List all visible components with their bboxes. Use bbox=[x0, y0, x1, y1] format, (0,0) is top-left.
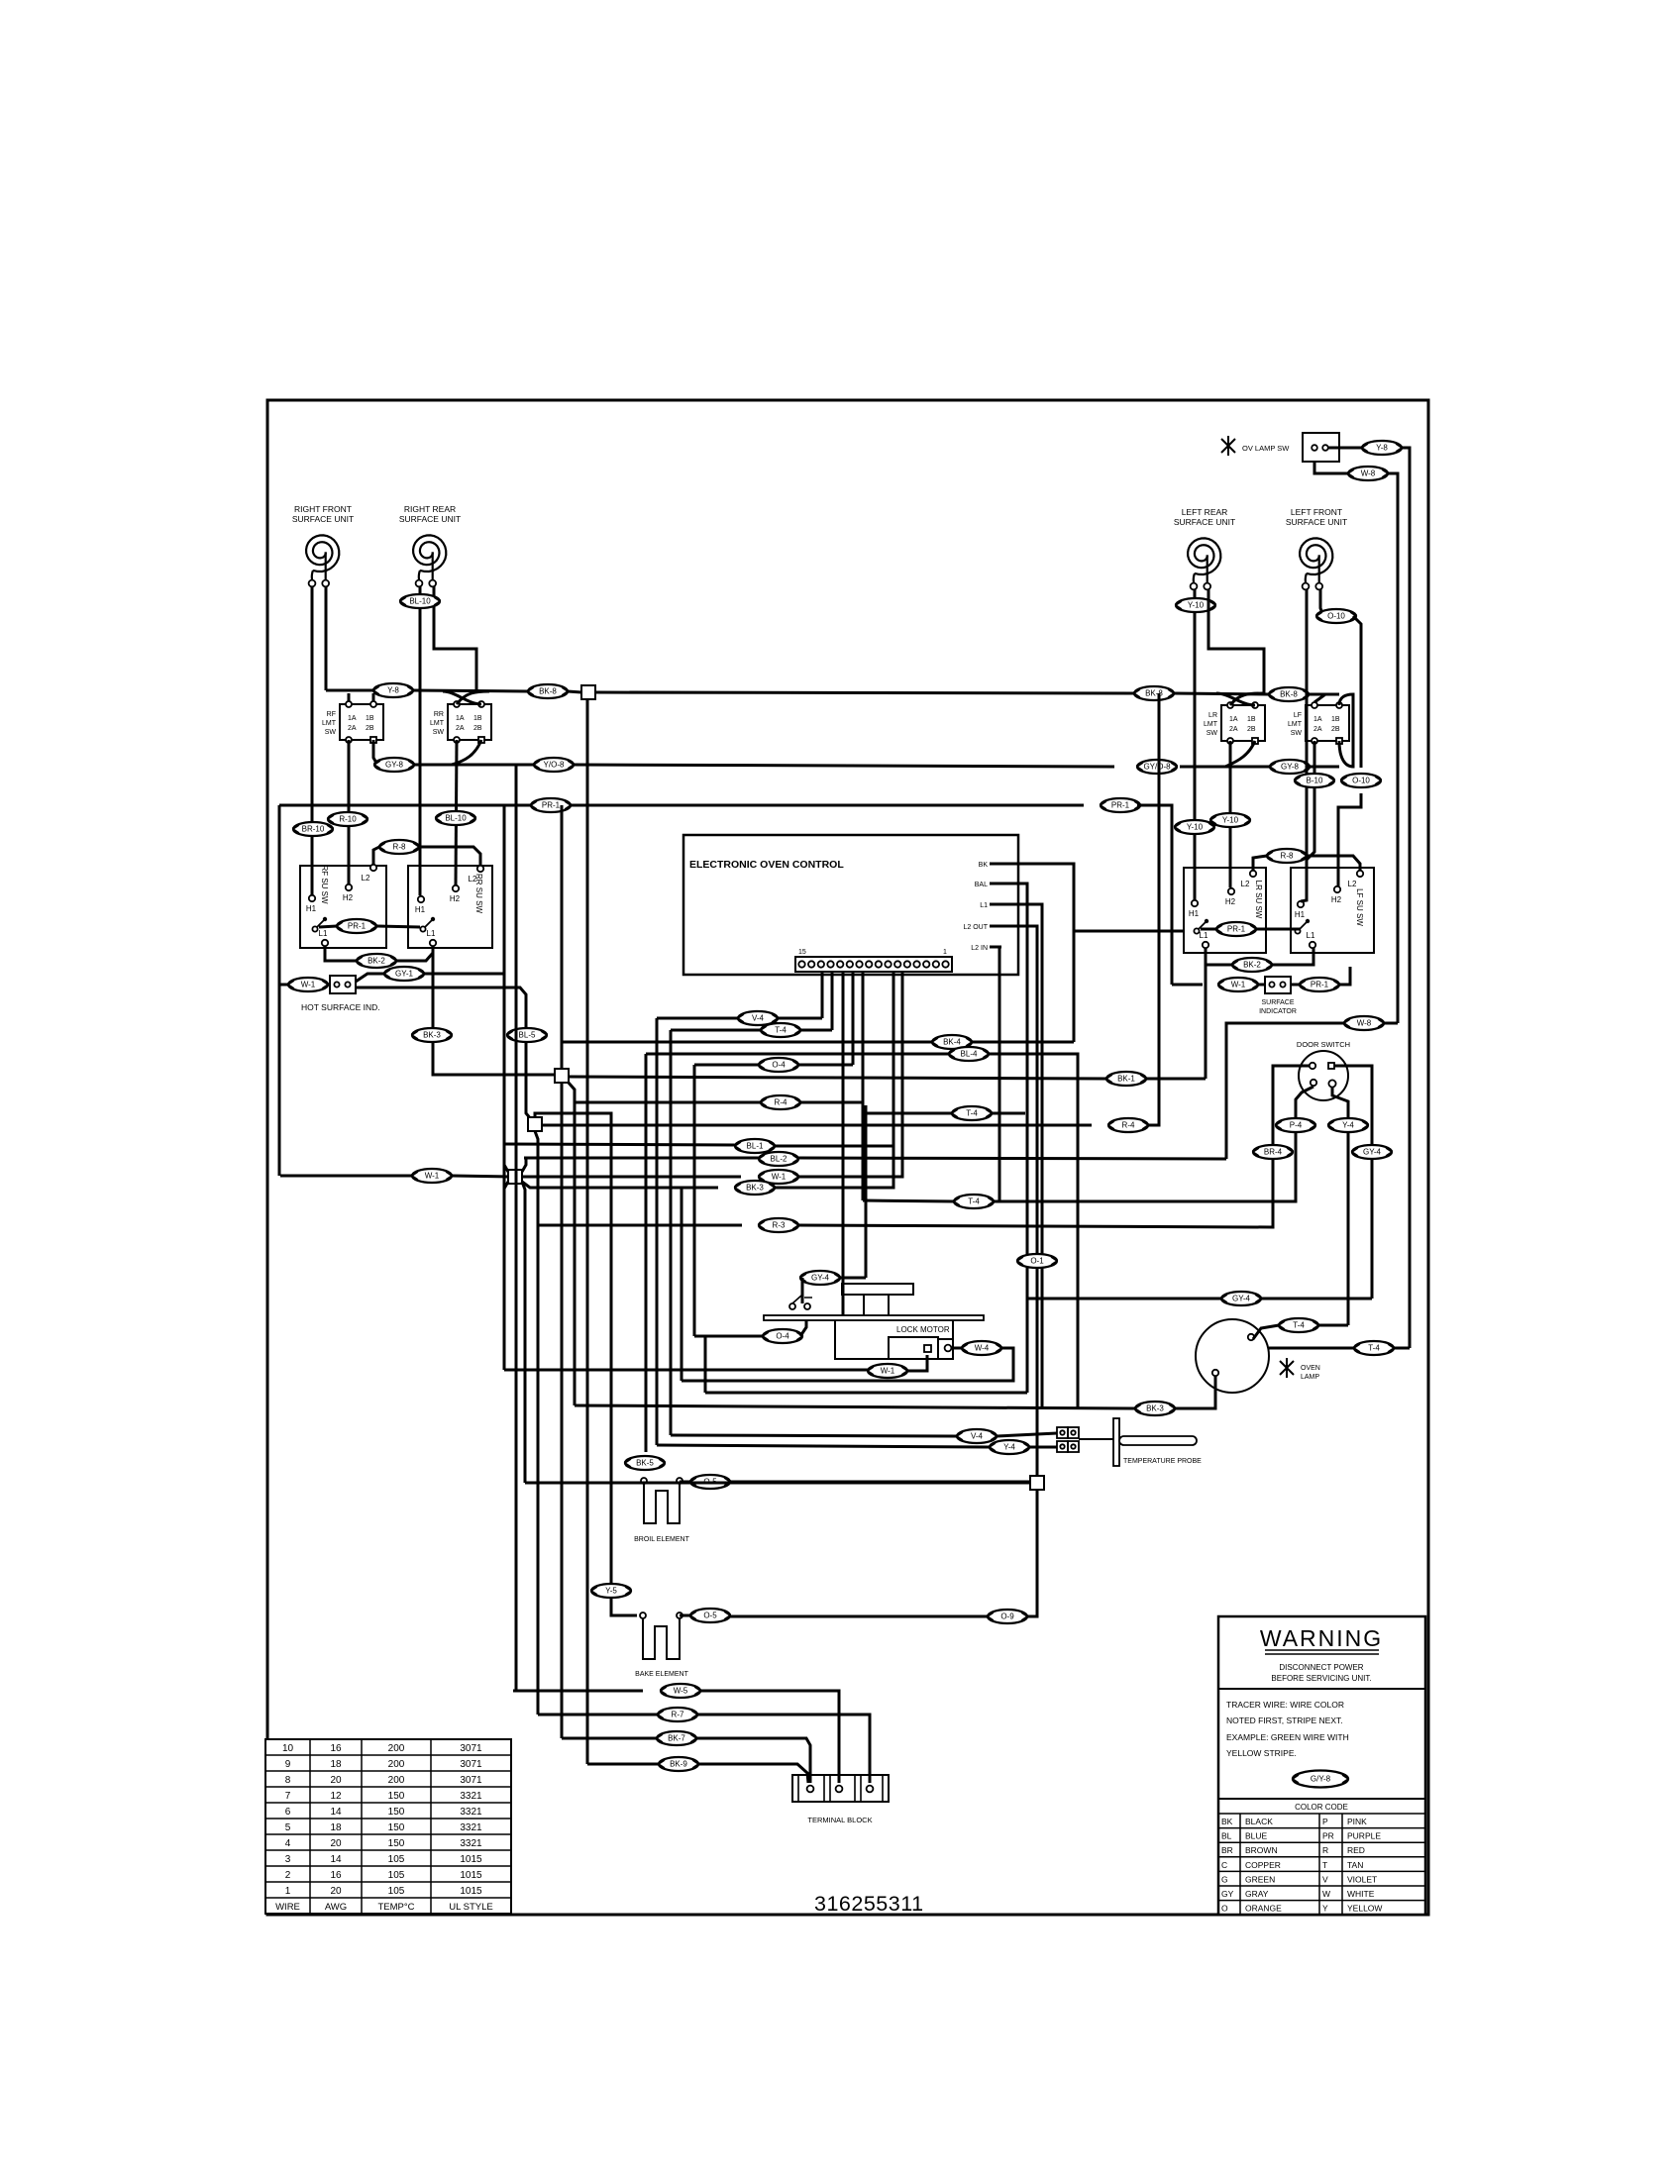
svg-text:RIGHT REAR: RIGHT REAR bbox=[404, 504, 456, 514]
svg-text:2A: 2A bbox=[1229, 726, 1238, 733]
svg-text:3321: 3321 bbox=[460, 1807, 482, 1818]
svg-text:H2: H2 bbox=[450, 894, 461, 903]
svg-text:8: 8 bbox=[285, 1775, 291, 1786]
wire RF LMT 2B to GY-8 bus bbox=[373, 740, 377, 765]
connector T-4 bbox=[761, 1023, 800, 1037]
connector BK-3 bbox=[1135, 1402, 1175, 1415]
node A bbox=[555, 1069, 569, 1083]
svg-text:RF: RF bbox=[327, 711, 336, 718]
svg-text:RF SU SW: RF SU SW bbox=[320, 865, 329, 904]
wire motor pin to W-4 bbox=[952, 1347, 962, 1350]
wire GY-8 long bus bbox=[574, 765, 1114, 767]
connector BK-8 bbox=[528, 684, 568, 698]
wire vertical 663 bbox=[656, 1018, 659, 1445]
svg-text:Y-8: Y-8 bbox=[1376, 444, 1388, 453]
wire vertical 677 bbox=[670, 1030, 673, 1435]
wire R-4 bus left bbox=[575, 1101, 761, 1104]
wire Y-4 to probe bbox=[1029, 1446, 1057, 1449]
svg-text:T-4: T-4 bbox=[1293, 1321, 1305, 1330]
svg-text:BLACK: BLACK bbox=[1245, 1817, 1273, 1826]
wire X diag up-right bbox=[522, 1159, 526, 1172]
svg-text:BLUE: BLUE bbox=[1245, 1831, 1268, 1841]
surface unit switch LF SU SW bbox=[1291, 868, 1374, 953]
svg-text:Y-4: Y-4 bbox=[1003, 1443, 1015, 1452]
svg-text:SURFACE UNIT: SURFACE UNIT bbox=[399, 514, 461, 524]
svg-text:GY-8: GY-8 bbox=[1281, 763, 1299, 772]
svg-text:1A: 1A bbox=[456, 715, 465, 722]
svg-text:20: 20 bbox=[330, 1775, 342, 1786]
wire bus to node bbox=[568, 691, 581, 692]
svg-text:BROWN: BROWN bbox=[1245, 1845, 1278, 1855]
wire RR LMT X-crossing top bbox=[443, 691, 489, 704]
svg-text:3071: 3071 bbox=[460, 1743, 482, 1754]
connector Y/O-8 bbox=[534, 758, 574, 772]
svg-text:LEFT FRONT: LEFT FRONT bbox=[1291, 507, 1342, 517]
wire Y-4 bus bbox=[657, 1445, 990, 1447]
connector R-10 bbox=[328, 812, 367, 826]
svg-text:3321: 3321 bbox=[460, 1791, 482, 1802]
temperature probe bbox=[1057, 1418, 1202, 1466]
svg-text:PR: PR bbox=[1322, 1831, 1334, 1841]
wire vertical 509 PR chain bbox=[503, 805, 506, 1370]
svg-text:L2: L2 bbox=[469, 875, 477, 884]
wire T-4b bus right bbox=[992, 1112, 1025, 1115]
svg-text:BEFORE SERVICING UNIT.: BEFORE SERVICING UNIT. bbox=[1271, 1674, 1371, 1683]
svg-text:BL-10: BL-10 bbox=[409, 597, 431, 606]
wire vertical to BK-7 bus bbox=[561, 1083, 564, 1738]
wire RR H1 lead bbox=[419, 586, 422, 895]
connector V-4 bbox=[957, 1429, 997, 1443]
wire W to motor pin bbox=[907, 1355, 927, 1371]
svg-text:1B: 1B bbox=[1331, 716, 1340, 723]
connector GY-8 bbox=[1270, 760, 1310, 774]
wire vertical 593 bbox=[586, 1687, 589, 1764]
connector BL-10 bbox=[436, 811, 475, 825]
svg-text:1B: 1B bbox=[473, 715, 482, 722]
wire X down-right to 1497 bus bbox=[522, 1182, 525, 1483]
wire to W-1 bbox=[1172, 984, 1203, 987]
svg-text:150: 150 bbox=[388, 1822, 405, 1833]
wire X diag down-left bbox=[504, 1182, 508, 1189]
connector BK-2 bbox=[357, 954, 396, 968]
wire BL-2 bus right bbox=[798, 1158, 1226, 1159]
svg-text:Y-4: Y-4 bbox=[1342, 1121, 1354, 1130]
svg-text:2B: 2B bbox=[473, 725, 482, 732]
connector O-5 bbox=[690, 1475, 730, 1489]
svg-text:1: 1 bbox=[285, 1886, 291, 1897]
wire BK-8 long bus bbox=[595, 692, 1134, 693]
wire W-5 bus bbox=[513, 1690, 643, 1693]
svg-text:GY-4: GY-4 bbox=[1232, 1295, 1250, 1303]
wire BK wire to LR contact bbox=[1074, 930, 1184, 933]
wire L1 wire vertical bbox=[1001, 904, 1042, 1407]
connector G/Y-8 bbox=[1293, 1771, 1348, 1788]
wire vertical 688 bbox=[681, 1188, 683, 1381]
svg-text:O-4: O-4 bbox=[776, 1332, 789, 1341]
svg-text:R-3: R-3 bbox=[773, 1221, 786, 1230]
oven lamp bbox=[1196, 1319, 1320, 1393]
warning box bbox=[1218, 1616, 1425, 1915]
wire LF LMT 2A down bbox=[1307, 741, 1314, 860]
wire BL-1 bus right bbox=[775, 1145, 893, 1148]
wire W-4 loop bbox=[682, 1348, 1013, 1381]
surface unit coil LR bbox=[1174, 507, 1235, 589]
connector BL-5 bbox=[507, 1028, 547, 1042]
door switch bbox=[1297, 1040, 1350, 1100]
wire R-3 bus bbox=[538, 1224, 742, 1227]
svg-text:H2: H2 bbox=[343, 893, 354, 902]
svg-text:L1: L1 bbox=[980, 902, 988, 909]
connector W-4 bbox=[962, 1341, 1001, 1355]
wire LR LMT X-crossing bottom bbox=[1225, 741, 1255, 767]
connector Y-5 bbox=[591, 1584, 631, 1598]
svg-text:W-1: W-1 bbox=[301, 981, 316, 989]
wire vertical 1171 upper bbox=[1158, 693, 1161, 858]
wire Y-8 right vertical bbox=[1402, 448, 1410, 1348]
svg-text:SURFACE: SURFACE bbox=[1261, 999, 1294, 1006]
wire bus 1406 bbox=[705, 1392, 1027, 1395]
svg-text:BK-5: BK-5 bbox=[636, 1459, 654, 1468]
wire LR LMT 2A to H2 bbox=[1229, 741, 1232, 887]
wire V-4 bus bbox=[671, 1435, 957, 1436]
svg-text:Y: Y bbox=[1322, 1904, 1328, 1914]
svg-text:GRAY: GRAY bbox=[1245, 1889, 1269, 1899]
connector BR-4 bbox=[1253, 1145, 1293, 1159]
wire LF LMT right loop bbox=[1339, 694, 1353, 767]
svg-text:BROIL ELEMENT: BROIL ELEMENT bbox=[634, 1536, 689, 1543]
svg-text:W-1: W-1 bbox=[425, 1172, 440, 1181]
limit switch LF LMT SW bbox=[1288, 702, 1349, 744]
wire drop to GY-4 lock bus bbox=[865, 1105, 868, 1278]
wire W-1 bus to pin drop bbox=[798, 972, 902, 1177]
connector Y-10 bbox=[1210, 813, 1250, 827]
connector Y-4 bbox=[1328, 1118, 1368, 1132]
wire bbox=[680, 1481, 691, 1484]
svg-text:P-4: P-4 bbox=[1290, 1121, 1303, 1130]
svg-text:1A: 1A bbox=[1313, 716, 1322, 723]
svg-text:RR: RR bbox=[434, 711, 444, 718]
svg-text:ORANGE: ORANGE bbox=[1245, 1904, 1282, 1914]
connector T-4 bbox=[1279, 1318, 1318, 1332]
connector R-4 bbox=[1108, 1118, 1148, 1132]
svg-text:BK-8: BK-8 bbox=[1145, 689, 1163, 698]
svg-text:COPPER: COPPER bbox=[1245, 1860, 1281, 1870]
wire BK-4 bus bbox=[562, 1041, 932, 1044]
connector O-10 bbox=[1341, 774, 1381, 787]
svg-text:GY-1: GY-1 bbox=[395, 970, 413, 979]
electronic oven control box U1 bbox=[683, 835, 1018, 975]
connector W-8 bbox=[1348, 467, 1388, 480]
svg-text:BK-1: BK-1 bbox=[1117, 1075, 1135, 1084]
svg-text:BK: BK bbox=[1221, 1817, 1233, 1826]
svg-text:BK-3: BK-3 bbox=[423, 1031, 441, 1040]
connector O-4 bbox=[763, 1329, 802, 1343]
connector BK-9 bbox=[659, 1757, 698, 1771]
wire R-4 bus right bbox=[800, 1101, 863, 1104]
svg-text:3071: 3071 bbox=[460, 1775, 482, 1786]
svg-text:L1: L1 bbox=[1200, 931, 1208, 940]
svg-text:TAN: TAN bbox=[1347, 1860, 1363, 1870]
svg-text:V-4: V-4 bbox=[971, 1432, 984, 1441]
connector PR-1 bbox=[1101, 798, 1140, 812]
connector BK-3 bbox=[735, 1181, 775, 1195]
svg-text:2: 2 bbox=[285, 1870, 291, 1881]
svg-text:BK-7: BK-7 bbox=[668, 1734, 685, 1743]
svg-text:W: W bbox=[1322, 1889, 1330, 1899]
svg-text:BK-3: BK-3 bbox=[1146, 1404, 1164, 1413]
svg-text:L2: L2 bbox=[362, 874, 370, 883]
svg-text:R-7: R-7 bbox=[672, 1711, 684, 1719]
wire LR L2 up bbox=[1253, 856, 1267, 871]
svg-text:Y-10: Y-10 bbox=[1188, 601, 1205, 610]
svg-text:PR-1: PR-1 bbox=[1111, 801, 1130, 810]
svg-text:P: P bbox=[1322, 1817, 1328, 1826]
svg-text:B-10: B-10 bbox=[1307, 777, 1323, 785]
wire BL-4 bus bbox=[646, 1053, 949, 1056]
connector PR-1 bbox=[1216, 922, 1256, 936]
wire BL-1 bus bbox=[503, 1144, 735, 1145]
wire to bake left pin bbox=[611, 1603, 637, 1615]
svg-text:H1: H1 bbox=[1189, 909, 1200, 918]
svg-text:O-10: O-10 bbox=[1327, 612, 1345, 621]
svg-text:1: 1 bbox=[943, 949, 947, 956]
wire W-1 to box bbox=[1258, 984, 1265, 987]
wire gauge table bbox=[265, 1739, 511, 1914]
svg-text:SW: SW bbox=[325, 729, 337, 736]
wire BL-4 bus right bbox=[989, 1054, 1078, 1407]
svg-text:BK-8: BK-8 bbox=[539, 687, 557, 696]
wire vertical 593 long bbox=[586, 699, 589, 1689]
wire R-7 bus bbox=[538, 1714, 658, 1716]
svg-text:20: 20 bbox=[330, 1886, 342, 1897]
svg-text:SW: SW bbox=[1207, 730, 1218, 737]
svg-text:RIGHT FRONT: RIGHT FRONT bbox=[294, 504, 352, 514]
svg-text:LF SU SW: LF SU SW bbox=[1355, 888, 1364, 926]
svg-text:H2: H2 bbox=[1331, 895, 1342, 904]
wire vertical 712 bbox=[704, 1336, 707, 1393]
connector T-4 bbox=[1354, 1341, 1394, 1355]
wire BK-1 bus right bbox=[1146, 1078, 1206, 1081]
svg-text:NOTED FIRST, STRIPE NEXT.: NOTED FIRST, STRIPE NEXT. bbox=[1226, 1716, 1343, 1725]
svg-text:18: 18 bbox=[330, 1759, 342, 1770]
wire R-8 to LF L2 bbox=[1307, 856, 1360, 871]
connector GY-8 bbox=[374, 758, 414, 772]
wire PR-1 to RR contact bbox=[376, 926, 420, 927]
connector R-4 bbox=[761, 1095, 800, 1109]
wire V-4 to probe bbox=[997, 1433, 1057, 1436]
connector Y-10 bbox=[1175, 820, 1214, 834]
wire L2 OUT wire vertical bbox=[1001, 926, 1037, 1476]
wire O-4 bus right bbox=[798, 1064, 853, 1067]
wire bbox=[800, 1277, 802, 1280]
svg-text:V: V bbox=[1322, 1874, 1328, 1884]
wire bus to LF LMT 1B corner bbox=[1309, 693, 1339, 696]
wire W bus 1383 bbox=[504, 1369, 868, 1372]
limit switch RF LMT SW bbox=[322, 701, 383, 743]
svg-text:105: 105 bbox=[388, 1870, 405, 1881]
node junction BK-8 bbox=[581, 685, 595, 699]
wire BK-2 to RR L1 bbox=[396, 946, 433, 961]
wire R-3 bus to door TL pin bbox=[798, 1066, 1310, 1227]
wire O-4 lock bus bbox=[694, 1335, 763, 1338]
wire indicator to vertical 531 bbox=[356, 988, 532, 1120]
wire BK-1 bus bbox=[569, 1077, 1106, 1079]
svg-text:O-4: O-4 bbox=[772, 1061, 786, 1070]
svg-text:BL-5: BL-5 bbox=[519, 1031, 536, 1040]
svg-text:BL-1: BL-1 bbox=[747, 1142, 764, 1151]
wire R-4 bus up right bbox=[1148, 858, 1159, 1125]
svg-text:T-4: T-4 bbox=[968, 1197, 980, 1206]
wire BK-2 to LF L1 bbox=[1272, 948, 1313, 965]
svg-text:SURFACE UNIT: SURFACE UNIT bbox=[292, 514, 354, 524]
wire LF right pin to O-10 bbox=[1320, 589, 1323, 616]
oven lamp switch bbox=[1221, 433, 1339, 462]
wire W-8 left to BL-2 bus bbox=[1226, 1023, 1344, 1159]
wire lamp switch to W-8 bbox=[1314, 462, 1348, 473]
svg-text:Y-10: Y-10 bbox=[1187, 823, 1204, 832]
connector V-4 bbox=[738, 1011, 778, 1025]
wire V-4 bus left bbox=[657, 1017, 738, 1020]
wire PR-1 long bus bbox=[571, 804, 1084, 807]
wire GY-1 to vertical 509 bbox=[424, 973, 504, 976]
svg-text:150: 150 bbox=[388, 1807, 405, 1818]
wire LR contact to PR-1 bbox=[1201, 928, 1216, 931]
svg-text:1015: 1015 bbox=[460, 1870, 482, 1881]
svg-text:L2: L2 bbox=[1241, 880, 1250, 888]
svg-text:5: 5 bbox=[285, 1822, 291, 1833]
svg-text:LOCK MOTOR: LOCK MOTOR bbox=[896, 1325, 950, 1334]
connector PR-1 bbox=[337, 919, 376, 933]
svg-text:L2: L2 bbox=[1348, 880, 1357, 888]
svg-text:TEMPERATURE PROBE: TEMPERATURE PROBE bbox=[1123, 1458, 1202, 1465]
wire to oven lamp pin bbox=[1175, 1376, 1215, 1408]
limit switch LR LMT SW bbox=[1204, 702, 1265, 744]
svg-text:H1: H1 bbox=[306, 904, 317, 913]
connector BK-8 bbox=[1134, 686, 1174, 700]
svg-text:R-4: R-4 bbox=[775, 1098, 787, 1107]
connector BL-10 bbox=[400, 594, 440, 608]
svg-text:PURPLE: PURPLE bbox=[1347, 1831, 1381, 1841]
svg-text:GY-4: GY-4 bbox=[1363, 1148, 1381, 1157]
svg-text:H2: H2 bbox=[1225, 897, 1236, 906]
surface indicator bbox=[1259, 977, 1297, 1015]
svg-text:20: 20 bbox=[330, 1838, 342, 1849]
wire T-4 bus right bbox=[800, 1029, 832, 1032]
svg-text:L1: L1 bbox=[427, 929, 436, 938]
connector R-3 bbox=[759, 1218, 798, 1232]
wire pin drop V-4 bbox=[821, 972, 824, 1018]
svg-text:Y-5: Y-5 bbox=[605, 1587, 617, 1596]
connector W-5 bbox=[661, 1684, 700, 1698]
surface unit switch RR SU SW bbox=[408, 866, 492, 948]
svg-text:BK-2: BK-2 bbox=[1243, 961, 1261, 970]
svg-text:RED: RED bbox=[1347, 1845, 1365, 1855]
svg-text:6: 6 bbox=[285, 1807, 291, 1818]
wire R-8 to RR L2 bbox=[419, 847, 480, 866]
wire LF LMT 1A tap bbox=[1314, 694, 1325, 702]
wire Y-8 segment bbox=[326, 689, 373, 692]
svg-text:V-4: V-4 bbox=[752, 1014, 765, 1023]
wire BK-9 bus bbox=[587, 1763, 659, 1766]
connector PR-1 bbox=[1300, 978, 1339, 991]
svg-text:LMT: LMT bbox=[430, 720, 445, 727]
wire GY-4 bus right bbox=[1261, 1298, 1372, 1300]
svg-text:COLOR CODE: COLOR CODE bbox=[1295, 1803, 1348, 1812]
svg-text:BL: BL bbox=[1221, 1831, 1232, 1841]
svg-text:WARNING: WARNING bbox=[1260, 1625, 1383, 1651]
wire LR LMT X-crossing top bbox=[1216, 693, 1263, 705]
svg-text:WIRE: WIRE bbox=[275, 1902, 300, 1913]
svg-text:T-4: T-4 bbox=[966, 1109, 978, 1118]
svg-text:BK-3: BK-3 bbox=[746, 1184, 764, 1193]
hot surface indicator bbox=[301, 976, 380, 1012]
connector Y-10 bbox=[1176, 598, 1215, 612]
svg-text:GY: GY bbox=[1221, 1889, 1234, 1899]
svg-text:BK: BK bbox=[979, 862, 989, 869]
svg-text:TERMINAL BLOCK: TERMINAL BLOCK bbox=[807, 1816, 872, 1824]
connector W-1 bbox=[412, 1169, 452, 1183]
wire bus to LF LMT 2B corner bbox=[1310, 766, 1339, 769]
connector P-4 bbox=[1276, 1118, 1315, 1132]
wire node B up to vertical 617 bbox=[535, 1113, 611, 1609]
svg-text:PR-1: PR-1 bbox=[542, 801, 561, 810]
svg-text:DISCONNECT POWER: DISCONNECT POWER bbox=[1279, 1663, 1363, 1672]
wire lamp switch to Y-8 bbox=[1328, 447, 1362, 450]
wire GY-4 right bbox=[840, 1277, 866, 1280]
wire T-4b to Y-8 vertical bbox=[1394, 1347, 1410, 1350]
connector W-1 bbox=[1218, 978, 1258, 991]
svg-text:2A: 2A bbox=[456, 725, 465, 732]
svg-text:SW: SW bbox=[433, 729, 445, 736]
svg-text:150: 150 bbox=[388, 1838, 405, 1849]
wire box to PR-1 bbox=[1291, 984, 1300, 987]
bake element bbox=[635, 1612, 688, 1678]
wire O-10 down bbox=[1353, 616, 1361, 768]
svg-text:LR: LR bbox=[1208, 712, 1217, 719]
lock motor bbox=[764, 1284, 984, 1359]
svg-text:4: 4 bbox=[285, 1838, 291, 1849]
wire O-4 bus left bbox=[694, 1064, 759, 1067]
wire vertical 652 bbox=[645, 1054, 648, 1452]
svg-text:LF: LF bbox=[1294, 712, 1302, 719]
wire W-1 to indicator bbox=[328, 984, 330, 987]
svg-text:200: 200 bbox=[388, 1743, 405, 1754]
wire PR-1 bus left bbox=[279, 804, 531, 807]
connector W-1 bbox=[288, 978, 328, 991]
connector BK-7 bbox=[657, 1731, 696, 1745]
svg-text:BK-9: BK-9 bbox=[670, 1760, 687, 1769]
svg-text:LMT: LMT bbox=[1288, 721, 1303, 728]
svg-text:PR-1: PR-1 bbox=[348, 922, 367, 931]
svg-text:YELLOW: YELLOW bbox=[1347, 1904, 1382, 1914]
svg-text:PINK: PINK bbox=[1347, 1817, 1367, 1826]
wire W-5 to terminal 2 bbox=[700, 1691, 839, 1783]
svg-text:W-8: W-8 bbox=[1357, 1019, 1372, 1028]
wire bus to BK-8 bbox=[413, 690, 528, 691]
wire GY-4 bus 1311 bbox=[1027, 1298, 1221, 1300]
svg-text:L2 IN: L2 IN bbox=[971, 945, 988, 952]
wire T-4 door bus left bbox=[863, 1200, 954, 1201]
svg-text:G: G bbox=[1221, 1874, 1228, 1884]
connector T-4 bbox=[954, 1195, 994, 1208]
svg-text:L2 OUT: L2 OUT bbox=[963, 924, 988, 931]
svg-text:Y-10: Y-10 bbox=[1222, 816, 1239, 825]
wire LF H1 lead bbox=[1301, 589, 1307, 901]
svg-text:15: 15 bbox=[798, 949, 806, 956]
svg-text:R-8: R-8 bbox=[1281, 852, 1294, 861]
svg-text:18: 18 bbox=[330, 1822, 342, 1833]
wire L2 IN wire vertical bbox=[999, 947, 1001, 1200]
